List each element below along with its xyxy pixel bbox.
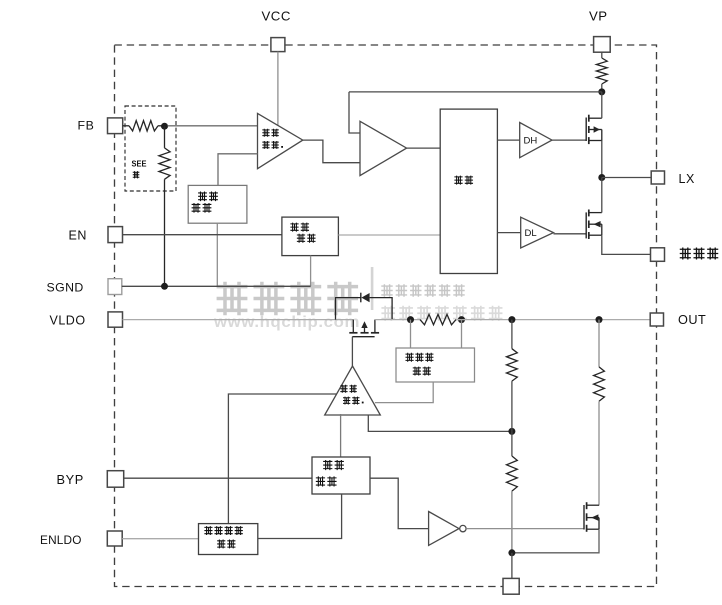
svg-text:www.hqchip.com: www.hqchip.com [213, 314, 360, 331]
wire mid node to R4 [511, 431, 513, 456]
wire R2 to SGND rail [164, 179, 166, 286]
resistor R5 load [594, 367, 605, 401]
wire LDO amp input to feedback tap [368, 415, 512, 431]
decor watermark big text [213, 282, 360, 331]
wire FB to divider [123, 125, 129, 127]
pin VLDO [50, 312, 123, 328]
node load right [596, 316, 603, 323]
resistor R4 LDO feedback bottom [507, 456, 518, 491]
pin PGND bottom [503, 578, 519, 594]
wire R3 to mid node [511, 381, 513, 431]
pin LX [651, 171, 695, 186]
pin BYP [57, 471, 124, 488]
wire inverter to Q4 gate [466, 528, 584, 530]
node FB divider [161, 123, 168, 130]
wire logic to DL buffer [497, 232, 520, 234]
wire sense left to OCP [410, 320, 412, 348]
wire LS drain to LX node [601, 178, 603, 213]
block voltage reference (buck) [188, 185, 247, 223]
svg-text:SGND: SGND [47, 281, 84, 295]
wire feedback to comparator input [349, 92, 360, 133]
svg-text:DH: DH [524, 136, 538, 147]
svg-text:FB: FB [78, 119, 95, 133]
buffer DH [520, 123, 552, 158]
block voltage reference (LDO) [312, 457, 370, 494]
svg-text:DL: DL [525, 228, 537, 239]
block fast start control [199, 524, 258, 555]
wire sense right to OCP [461, 320, 463, 348]
node LDO feedback tap [508, 316, 515, 323]
wire LS source to PGND pin [602, 235, 651, 254]
diode body (LDO pass) [336, 293, 393, 320]
wire tap to R3 [511, 320, 513, 349]
wire fast-start to LDO error amp [228, 394, 336, 524]
transistor Q1 high-side NMOS [586, 115, 602, 144]
pin protective ground [651, 247, 719, 261]
block overcurrent protection [396, 348, 475, 382]
feedback divider box (dashed) [125, 106, 176, 191]
node analog ground [508, 549, 515, 556]
block logic [440, 109, 497, 273]
resistor R1 feedback top [129, 121, 158, 131]
wire R5 to Q4 drain [598, 401, 600, 505]
buffer DL [521, 217, 554, 248]
wire VP to resistor [601, 52, 603, 58]
wire R1 to node [158, 125, 165, 127]
resistor VP high-side sense [596, 58, 607, 84]
wire control logic to SGND rail [310, 256, 312, 287]
resistor R3 LDO feedback top [507, 349, 518, 381]
wire node to R2 [164, 126, 166, 148]
svg-text:LX: LX [679, 172, 695, 186]
wire LX node to pin [602, 177, 651, 179]
junction SGND / divider [161, 283, 168, 290]
wire EN to control logic [123, 234, 282, 236]
wire ground node to PGND2 pin [511, 553, 513, 579]
inverter U2 [429, 512, 466, 546]
pin ENLDO [40, 531, 122, 547]
pin SGND [47, 279, 122, 295]
node feedback mid [508, 428, 515, 435]
wire vref2 to inverter [370, 478, 429, 528]
wire HS source to LX [601, 141, 603, 178]
transistor Q2 low-side NMOS [586, 210, 602, 240]
wire comparator to logic [407, 147, 441, 149]
transistor Q4 LDO discharge NMOS [584, 502, 599, 532]
pin VP [589, 9, 610, 53]
block control logic [282, 217, 339, 256]
wire BYP to vref2 [124, 477, 312, 479]
wire ENLDO to fast-start [122, 538, 198, 540]
wire vref to SGND rail [216, 223, 218, 286]
wire HS drain to VP node [601, 92, 603, 118]
wire error amp out to comparator [303, 140, 360, 163]
wire VLDO line [123, 319, 354, 321]
wire VCC to error amp [277, 52, 279, 126]
wire Q4 source to ground node [512, 529, 599, 553]
svg-text:VCC: VCC [262, 9, 291, 24]
node sense left [407, 316, 414, 323]
wire LDO amp input to vref2 [340, 414, 342, 457]
node sense right [458, 316, 465, 323]
wire LDO output line [375, 319, 420, 321]
wire fast-start to vref2 bottom [258, 494, 342, 539]
pin OUT [650, 313, 706, 327]
label SEE note [132, 159, 147, 179]
svg-text:BYP: BYP [57, 472, 84, 487]
svg-text:SEE: SEE [132, 159, 147, 169]
pin FB [78, 118, 123, 134]
svg-text:ENLDO: ENLDO [40, 533, 82, 547]
comparator PWM [360, 121, 407, 175]
wire R4 to ground node [511, 491, 513, 553]
op-amp error amplifier (buck) [258, 113, 303, 168]
wire node to error amp input [168, 125, 258, 127]
wire logic to DH buffer [497, 139, 519, 141]
wire DH to HS gate [552, 139, 586, 141]
node LX [598, 174, 605, 181]
svg-text:VP: VP [589, 9, 608, 24]
wire current-sense feedback [349, 91, 602, 93]
wire OCP to LDO error amp [375, 382, 433, 403]
wire sense to OUT pin [456, 319, 650, 321]
svg-text:OUT: OUT [678, 313, 706, 327]
wire Q3 gate to LDO error amp [351, 337, 353, 366]
wire DL to LS gate [554, 233, 587, 235]
decor watermark right text [381, 284, 502, 320]
wire vref to error amp input [218, 154, 258, 186]
resistor current sense [420, 314, 456, 324]
svg-text:VLDO: VLDO [50, 314, 86, 328]
resistor R2 feedback bottom [159, 148, 170, 179]
transistor Q3 LDO pass PMOS [349, 320, 379, 337]
wire control logic to logic block [338, 234, 440, 236]
node VP sense / HS drain [598, 88, 605, 95]
svg-text:EN: EN [69, 229, 87, 243]
op-amp LDO error amplifier [325, 366, 381, 415]
wire resistor to node [601, 84, 603, 92]
wire SGND rail [122, 285, 311, 287]
chip boundary (dashed) [115, 45, 657, 587]
pin VCC [262, 9, 291, 52]
wire out to R5 [598, 320, 600, 367]
pin EN [69, 227, 123, 243]
decor watermark divider [371, 267, 374, 310]
